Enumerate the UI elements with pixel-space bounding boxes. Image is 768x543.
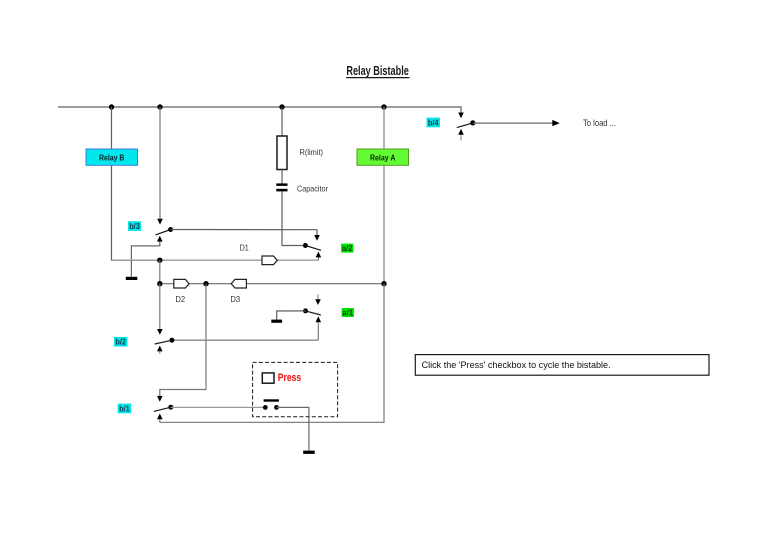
svg-text:b/3: b/3 xyxy=(129,222,140,231)
wire b/3 top contact drop xyxy=(159,107,161,220)
node between D2 and D3 xyxy=(203,281,208,286)
switch b/4 top contact arrow xyxy=(458,113,464,119)
svg-text:b/1: b/1 xyxy=(119,404,130,413)
checkbox Press xyxy=(262,373,274,383)
node junction on rail at b/3 branch xyxy=(157,104,162,109)
wire resistor to capacitor xyxy=(281,170,283,184)
wire a/1 lower contact to b/2 common row xyxy=(317,322,319,340)
svg-text:To load ...: To load ... xyxy=(583,118,616,128)
relay coil Relay B xyxy=(86,149,138,165)
wire x160 vertical between D1 row and D2 row xyxy=(159,260,161,284)
node b/3 common xyxy=(168,227,173,232)
svg-text:b/2: b/2 xyxy=(115,338,126,347)
svg-text:D3: D3 xyxy=(230,294,240,304)
wire b/2 lower stub xyxy=(159,351,161,354)
wire top supply rail xyxy=(58,106,461,108)
switch b/3 top contact arrow xyxy=(157,219,163,225)
svg-text:a/2: a/2 xyxy=(342,244,353,253)
switch b/3 lower contact arrow xyxy=(157,236,163,242)
label b/3 xyxy=(128,221,141,231)
wire capacitor to a/2 common xyxy=(282,191,305,245)
svg-text:Click the 'Press' checkbox to: Click the 'Press' checkbox to cycle the … xyxy=(422,360,611,370)
switch a/2 top contact arrow xyxy=(314,235,320,241)
wire D2 D3 row xyxy=(160,283,384,285)
wire Relay B branch vertical xyxy=(112,107,160,260)
svg-text:Press: Press xyxy=(278,372,301,384)
svg-text:Relay A: Relay A xyxy=(370,153,396,163)
node a/2 common xyxy=(303,243,308,248)
wire D1 row xyxy=(112,259,319,261)
svg-text:b/4: b/4 xyxy=(428,118,439,127)
node junction on rail at Relay A branch xyxy=(381,104,386,109)
label b/4 xyxy=(427,118,441,128)
switch a/2 lower contact arrow xyxy=(316,252,322,258)
node D1 wire at x160 xyxy=(157,258,162,263)
node b/2 common xyxy=(169,338,174,343)
diode D2 xyxy=(174,279,189,288)
ground at push button xyxy=(303,451,315,454)
relay coil Relay A xyxy=(357,149,409,165)
capacitor C plate 2 xyxy=(276,189,287,192)
switch b/4 blade xyxy=(457,123,473,128)
svg-text:Relay B: Relay B xyxy=(99,153,125,163)
node push button left xyxy=(263,405,268,410)
diode D1 xyxy=(262,256,277,265)
diode D3 xyxy=(231,279,246,288)
switch b/3 blade xyxy=(156,230,171,235)
label b/2 xyxy=(114,337,128,347)
switch b/1 top contact arrow xyxy=(157,396,163,402)
label a/2 xyxy=(341,244,353,253)
switch a/2 blade xyxy=(305,246,321,251)
wire bottom rail xyxy=(160,284,384,423)
ground at a/1 xyxy=(271,320,282,323)
svg-text:Relay Bistable: Relay Bistable xyxy=(346,63,409,78)
press control dashed box xyxy=(253,362,338,416)
switch b/1 lower contact arrow xyxy=(157,414,163,420)
switch a/1 blade xyxy=(306,311,321,315)
wire x160 vertical to b/2 top contact xyxy=(159,284,161,330)
capacitor C plate 1 xyxy=(276,183,287,186)
ground at b/3 xyxy=(126,277,138,280)
wire a/2 lower contact stub xyxy=(317,257,319,260)
svg-text:a/1: a/1 xyxy=(342,308,353,317)
switch b/2 lower contact arrow xyxy=(157,346,163,352)
wire b/4 common to load arrow xyxy=(473,122,554,124)
switch b/2 blade xyxy=(155,340,172,344)
wire b/3 common to a/2 top contact xyxy=(171,230,317,236)
label b/1 xyxy=(118,404,132,414)
wire R(limit) branch from rail xyxy=(281,107,283,136)
wire b/4 lower stub xyxy=(460,135,462,141)
switch a/1 lower contact arrow xyxy=(316,316,322,322)
svg-text:D2: D2 xyxy=(175,294,185,304)
node junction on rail at R(limit) branch xyxy=(279,104,284,109)
resistor R(limit) xyxy=(277,136,287,170)
wire b/2 common row xyxy=(172,339,318,341)
instruction text box xyxy=(415,355,709,376)
node b/1 common xyxy=(168,405,173,410)
node push button right xyxy=(274,405,279,410)
node D2 row left xyxy=(157,281,162,286)
wire b/1 lower contact to bottom rail xyxy=(159,419,161,422)
node junction on rail at Relay B branch xyxy=(109,104,114,109)
switch b/4 lower contact arrow xyxy=(458,129,464,135)
switch a/1 upper contact arrow xyxy=(315,299,321,305)
wire rail corner to b/4 top contact xyxy=(460,106,462,112)
node D2 row right at Relay A branch xyxy=(381,281,386,286)
svg-text:R(limit): R(limit) xyxy=(300,147,324,157)
switch b/1 blade xyxy=(154,407,171,411)
svg-text:Capacitor: Capacitor xyxy=(297,183,328,193)
node b/4 common xyxy=(470,120,475,125)
switch a/1 upper stub wire xyxy=(317,295,319,301)
push button actuator bar xyxy=(264,399,279,401)
wire x206 vertical to b/1 top contact xyxy=(160,284,206,397)
label a/1 xyxy=(342,308,354,317)
switch b/2 top contact arrow xyxy=(157,329,163,335)
wire a/1 common to ground xyxy=(277,311,306,320)
wire push button to ground xyxy=(277,407,309,450)
arrow to load xyxy=(552,120,560,126)
svg-text:D1: D1 xyxy=(240,243,249,253)
wire b/1 common to push button xyxy=(171,406,265,408)
node a/1 common xyxy=(303,308,308,313)
wire b/3 lower contact to ground xyxy=(131,242,159,277)
wire Relay A branch vertical xyxy=(383,107,385,284)
